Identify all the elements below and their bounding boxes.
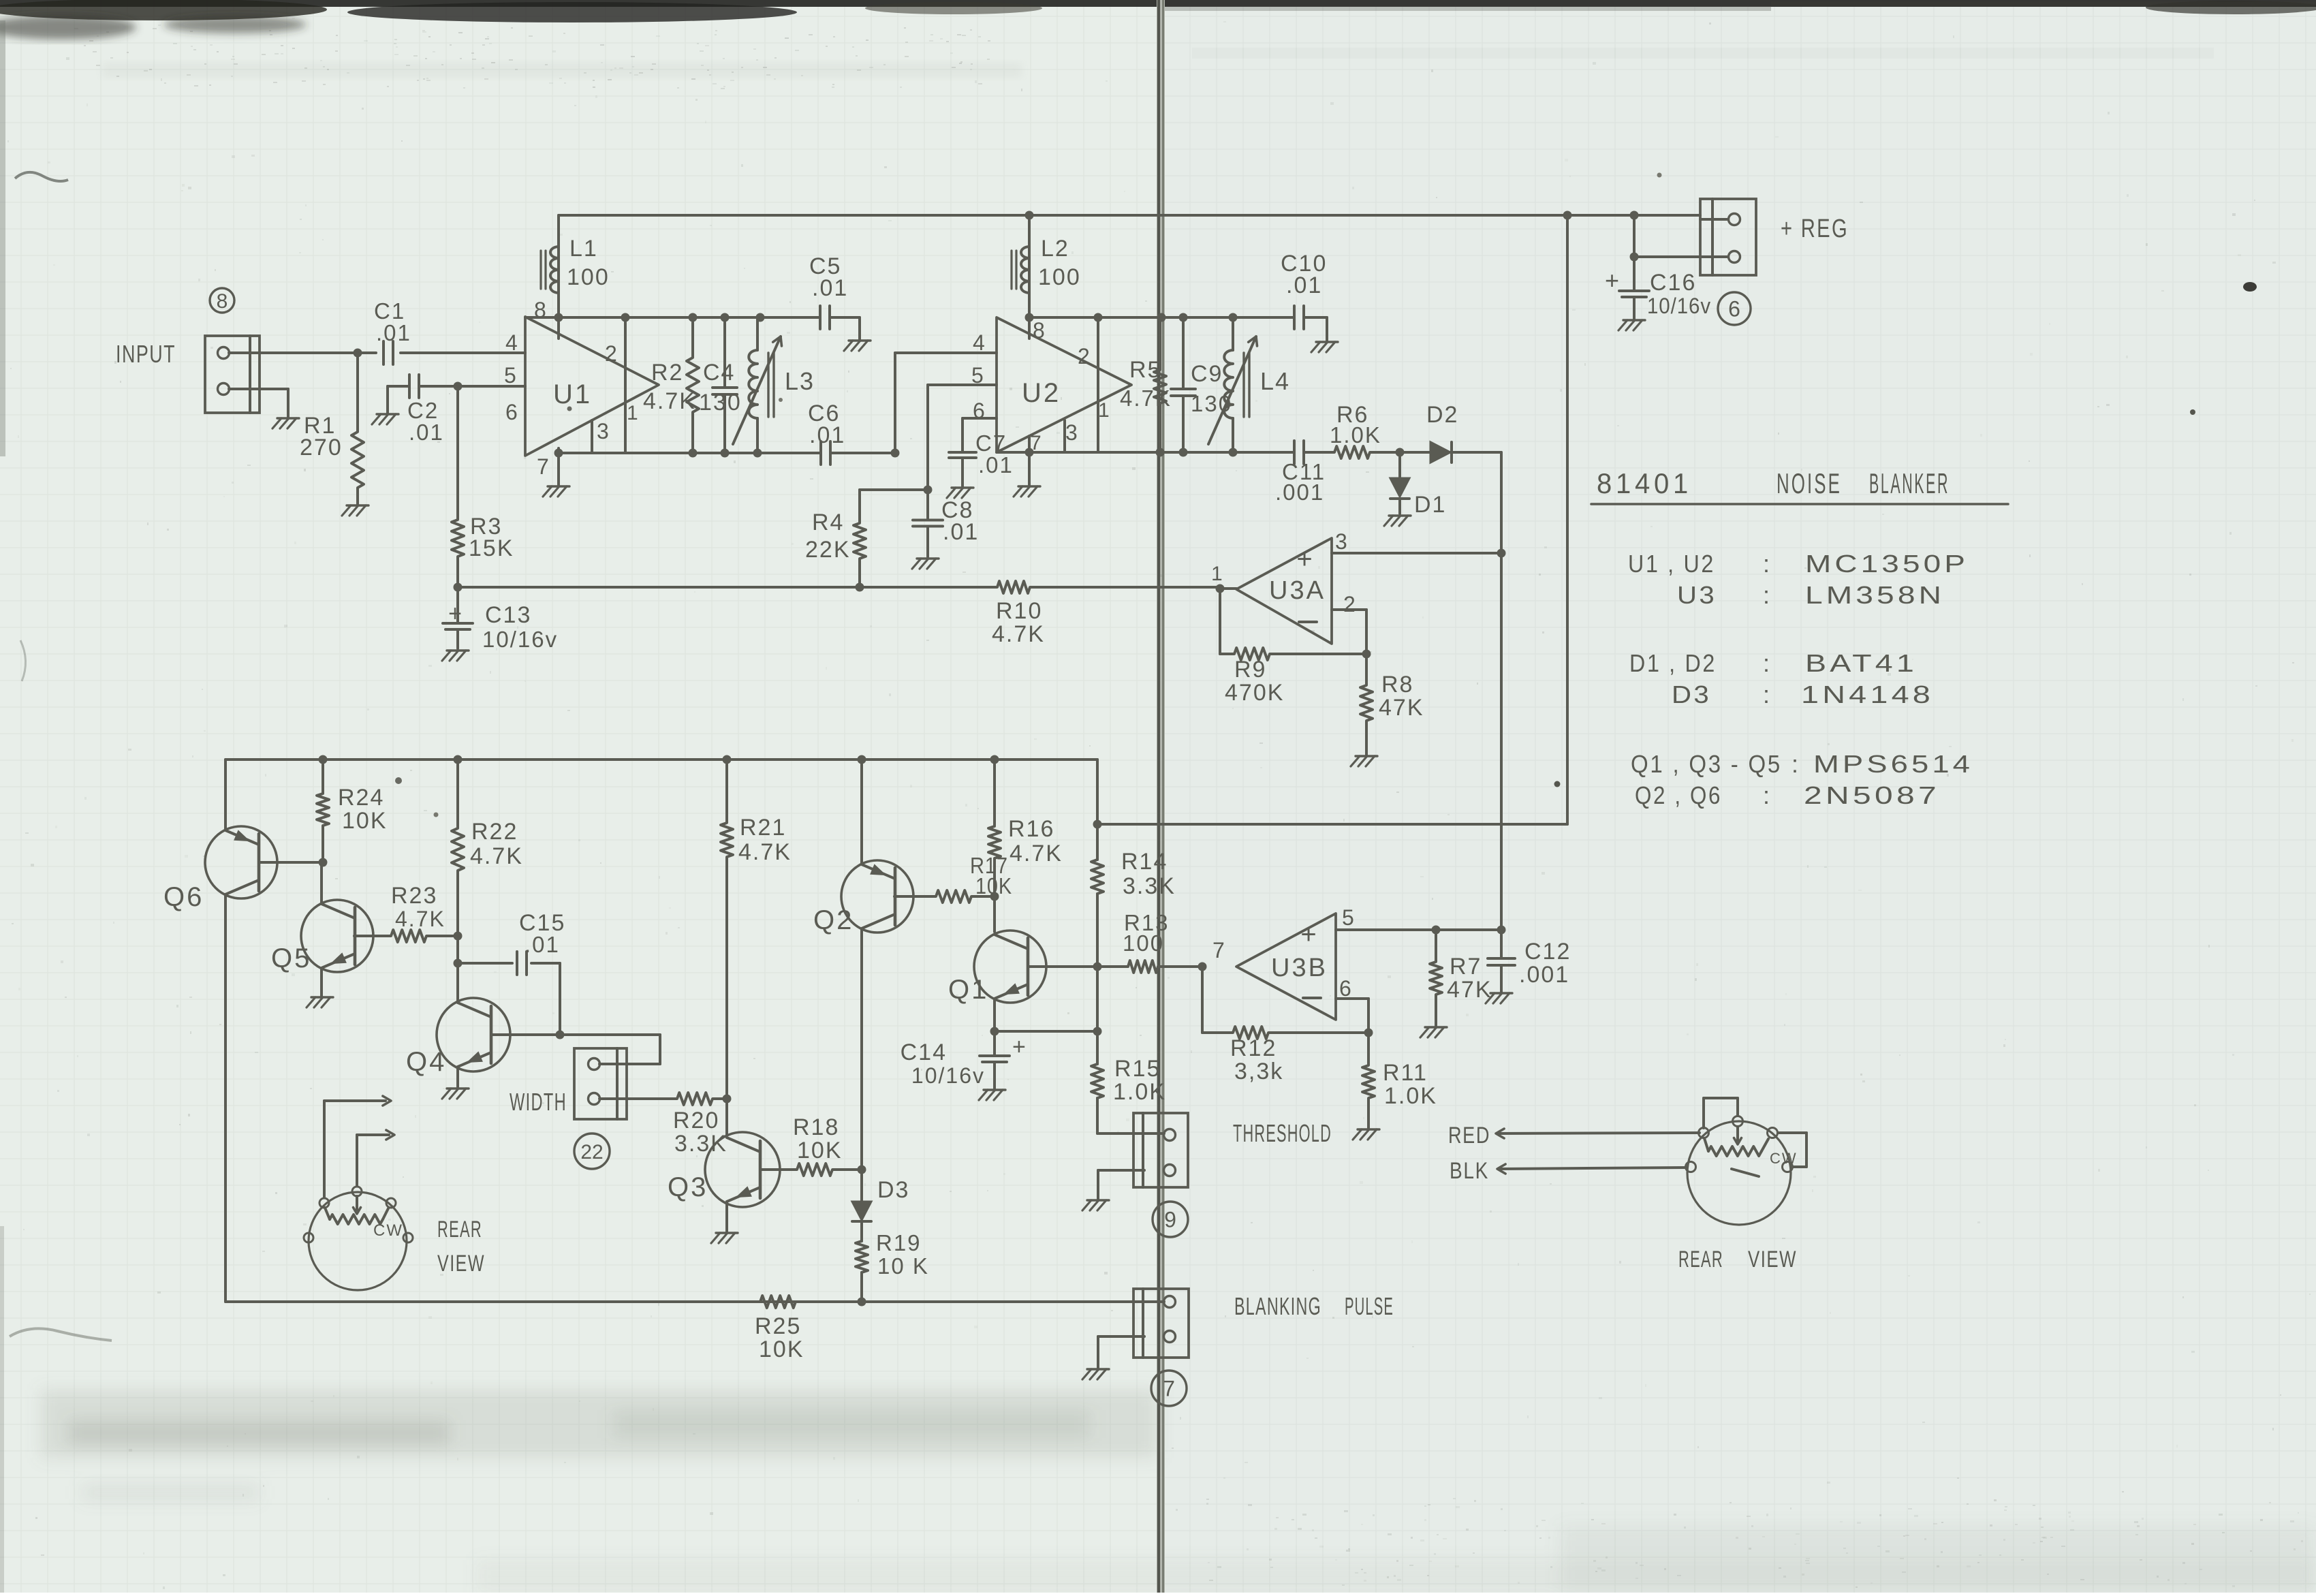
svg-text:LM358N: LM358N — [1805, 581, 1945, 609]
node pin3-D2 junction — [1497, 549, 1506, 558]
connector 9 — [1098, 1113, 1188, 1199]
svg-text:R14: R14 — [1121, 849, 1168, 875]
wire +REG drop — [1566, 215, 1569, 824]
inductor L3 (variable) — [733, 317, 815, 453]
resistor R23 — [388, 883, 458, 942]
node bus dots — [1563, 211, 1639, 220]
svg-text:C4: C4 — [703, 360, 735, 386]
resistor R11 — [1362, 1033, 1437, 1128]
svg-text:2N5087: 2N5087 — [1804, 781, 1940, 809]
scan artifacts: left edge marks — [0, 20, 5, 456]
wire bus U1 bottom — [559, 452, 820, 454]
svg-text:+: + — [1012, 1034, 1027, 1060]
wire U1 pin8 riser — [557, 215, 560, 339]
parts list Q1 Q3-Q5 — [1631, 750, 1973, 778]
svg-text:BLANKING: BLANKING — [1234, 1292, 1321, 1320]
capacitor C10 — [1281, 251, 1327, 341]
svg-text:+: + — [1300, 920, 1316, 950]
wire lower supply bus — [225, 758, 1097, 761]
capacitor C4 — [699, 317, 742, 453]
svg-text:CW: CW — [1770, 1150, 1798, 1167]
ground C5 — [844, 341, 871, 351]
wire bottom loop — [225, 1300, 1164, 1303]
REAR VIEW label right — [1678, 1247, 1797, 1272]
svg-text:4: 4 — [505, 330, 519, 355]
node pin4 drop — [891, 449, 900, 458]
resistor R4 — [805, 490, 866, 587]
THRESHOLD label — [1233, 1119, 1332, 1147]
svg-text:R18: R18 — [793, 1114, 839, 1140]
transistor Q2 (2N5087) — [813, 760, 933, 1170]
wire RED — [1496, 1129, 1700, 1138]
ground Q5 — [307, 997, 333, 1007]
ground C8 — [912, 559, 939, 569]
svg-text:100: 100 — [1123, 930, 1164, 956]
resistor R16 — [988, 760, 1063, 932]
connector J1 INPUT — [205, 336, 260, 413]
svg-text::: : — [1763, 680, 1771, 708]
svg-text:6: 6 — [505, 400, 519, 424]
resistor R10 label — [992, 598, 1045, 647]
svg-text:130: 130 — [699, 390, 742, 416]
wire input lower — [229, 389, 288, 417]
capacitor C13 — [443, 587, 558, 652]
svg-text:3.3K: 3.3K — [1123, 873, 1176, 899]
svg-text:D2: D2 — [1426, 402, 1458, 428]
node bus3 junction — [1093, 820, 1102, 829]
svg-text:4.7K: 4.7K — [643, 388, 696, 414]
wire WIDTH lower / resistor R20 — [599, 1093, 727, 1157]
svg-text:Q6: Q6 — [163, 882, 204, 912]
node Q1 base junction — [1093, 963, 1102, 971]
svg-text:1.0K: 1.0K — [1113, 1079, 1166, 1105]
wire U3B pin6 — [1336, 999, 1368, 1033]
wire detector line — [458, 581, 1220, 593]
transistor Q3 (MPS6514) — [668, 1132, 794, 1232]
ground R11 — [1353, 1129, 1379, 1140]
capacitor C6 — [808, 401, 845, 465]
wire bus U2 bottom — [997, 451, 1294, 454]
capacitor C14 — [901, 1031, 1027, 1089]
svg-text:R23: R23 — [391, 883, 437, 909]
svg-text:.01: .01 — [376, 320, 411, 345]
wire R4 top — [860, 488, 928, 491]
svg-text:NOISE: NOISE — [1777, 467, 1842, 499]
capacitor C7 — [949, 431, 1014, 486]
ground R1 — [342, 505, 369, 516]
svg-text:MC1350P: MC1350P — [1805, 550, 1969, 578]
capacitor C9 — [1171, 317, 1232, 452]
svg-text:Q3: Q3 — [668, 1172, 708, 1202]
ground C16 — [1618, 320, 1645, 330]
svg-text:D3: D3 — [877, 1177, 909, 1203]
wire C6 to U2 pin4 drop — [831, 353, 895, 453]
wire U3A output — [1220, 587, 1236, 590]
svg-text:1: 1 — [1098, 399, 1111, 422]
wire Q4 base to WIDTH — [560, 1035, 660, 1064]
svg-text:D1: D1 — [1414, 492, 1446, 518]
svg-text:2: 2 — [1078, 344, 1091, 369]
svg-text:470K: 470K — [1225, 680, 1284, 706]
svg-text:R10: R10 — [996, 598, 1042, 624]
svg-text:R9: R9 — [1234, 657, 1266, 683]
node 8 marker — [210, 288, 234, 313]
ground C7 — [947, 488, 973, 498]
svg-text:REAR: REAR — [437, 1217, 482, 1242]
svg-text:7: 7 — [537, 454, 550, 479]
svg-text:270: 270 — [300, 435, 343, 460]
svg-text:7: 7 — [1163, 1377, 1175, 1401]
node R9-R8 junction — [1362, 650, 1371, 659]
svg-text:10K: 10K — [759, 1336, 804, 1362]
diode D1 — [1390, 452, 1446, 518]
INPUT label — [116, 340, 176, 368]
transistor Q4 (MPS6514) — [406, 998, 560, 1087]
svg-text:C12: C12 — [1524, 939, 1571, 965]
transistor Q1 (MPS6514) — [948, 930, 1046, 1005]
svg-text:R11: R11 — [1383, 1060, 1428, 1086]
resistor R8 — [1360, 654, 1424, 755]
node dots U2 bottom — [1025, 448, 1238, 457]
node dots U2 top — [1025, 313, 1238, 322]
wire Q2 collector chain / diode D3 / resistor R19 — [852, 1170, 929, 1302]
svg-text:R12: R12 — [1230, 1035, 1277, 1061]
svg-text:R4: R4 — [812, 510, 844, 535]
svg-text:6: 6 — [1728, 297, 1740, 322]
node R3-C13 junction — [454, 583, 463, 592]
svg-text:3: 3 — [597, 419, 610, 443]
resistor R1 — [300, 353, 364, 504]
svg-text:R7: R7 — [1450, 954, 1482, 980]
resistor R18 — [793, 1114, 862, 1176]
svg-text:.01: .01 — [1286, 272, 1322, 298]
wire Q1 base / resistor R13 — [1028, 910, 1202, 973]
svg-text:VIEW: VIEW — [1748, 1247, 1797, 1272]
svg-text:R16: R16 — [1008, 816, 1054, 842]
svg-text:VIEW: VIEW — [437, 1251, 485, 1277]
node 6 marker — [1718, 292, 1751, 325]
op-amp U3A (LM358N) — [1211, 529, 1357, 644]
svg-text:L2: L2 — [1041, 236, 1069, 262]
svg-text:C13: C13 — [485, 602, 531, 628]
node input-R1 junction — [354, 349, 362, 358]
svg-text:4.7K: 4.7K — [992, 621, 1045, 647]
svg-text:22K: 22K — [805, 537, 851, 563]
svg-text:10K: 10K — [342, 808, 388, 834]
inductor L1 — [541, 236, 610, 293]
wire U2 pin5 — [928, 385, 997, 490]
node dots U1 bottom — [554, 449, 762, 458]
capacitor C5 — [809, 253, 860, 339]
wire U3A pin2 — [1332, 610, 1366, 654]
REAR VIEW label left — [437, 1217, 485, 1277]
svg-text:8: 8 — [1033, 318, 1046, 343]
ground U2 pin7 — [1014, 486, 1040, 497]
title 81401 NOISE BLANKER — [1591, 467, 2008, 504]
node Q4 base junction — [556, 1031, 565, 1039]
ground R7 — [1420, 1027, 1447, 1037]
svg-text::: : — [1763, 781, 1771, 809]
svg-text:Q2: Q2 — [813, 905, 854, 935]
svg-text:10 K: 10 K — [877, 1253, 929, 1279]
resistor R14 label — [1121, 849, 1176, 899]
wire U2 pin4 — [895, 351, 997, 354]
resistor R3 — [452, 386, 514, 587]
svg-text:Q1 , Q3 - Q5: Q1 , Q3 - Q5 — [1631, 750, 1782, 778]
svg-text:Q4: Q4 — [406, 1047, 446, 1077]
potentiometer THRESHOLD rear view — [1686, 1098, 1807, 1225]
svg-text:U1 , U2: U1 , U2 — [1628, 550, 1715, 578]
wire top supply bus — [559, 214, 1700, 217]
wire node line U2 top — [1029, 316, 1294, 319]
svg-text:U3: U3 — [1677, 581, 1717, 609]
ground connector 7 — [1082, 1369, 1109, 1379]
svg-text:L1: L1 — [569, 236, 598, 262]
RED label — [1448, 1123, 1490, 1148]
svg-text:1.0K: 1.0K — [1384, 1083, 1437, 1109]
svg-text:100: 100 — [1038, 264, 1081, 290]
svg-text:MPS6514: MPS6514 — [1813, 750, 1973, 778]
capacitor C8 — [913, 490, 979, 557]
resistor R25 — [755, 1296, 804, 1362]
svg-text:+: + — [1605, 266, 1621, 294]
svg-text:+: + — [448, 601, 462, 627]
resistor R17 — [933, 853, 1012, 903]
parts list U3 — [1677, 581, 1945, 609]
ground C14 — [979, 1090, 1005, 1100]
wire R14 chain drop — [1091, 760, 1164, 1133]
svg-text:WIDTH: WIDTH — [510, 1088, 567, 1116]
node R20-R21 junction — [723, 1095, 732, 1104]
op-amp U1 (MC1350P) — [504, 298, 659, 479]
svg-text:.01: .01 — [525, 932, 560, 957]
resistor R22 — [452, 760, 523, 936]
wire U1 pin7 — [557, 448, 560, 485]
capacitor C2 — [407, 375, 444, 445]
svg-text:4: 4 — [973, 330, 986, 355]
wire C2 to pin5 — [420, 385, 525, 388]
node R4 bottom — [856, 583, 864, 592]
ground C2 — [372, 414, 398, 424]
node R7 junction — [1432, 926, 1441, 935]
svg-text:5: 5 — [1342, 905, 1356, 930]
svg-text:3: 3 — [1065, 420, 1079, 445]
parts list U1 U2 — [1628, 550, 1969, 578]
svg-text:4.7K: 4.7K — [1010, 841, 1063, 866]
node 22 marker — [574, 1133, 610, 1169]
node Q1 emitter junction — [1093, 1027, 1102, 1036]
node dots U1 top — [554, 313, 765, 322]
svg-text:Q2 , Q6: Q2 , Q6 — [1635, 781, 1722, 809]
resistor R5 — [1120, 317, 1172, 452]
node D1 junction — [1396, 448, 1405, 457]
capacitor C12 — [1488, 930, 1571, 992]
capacitor C16 — [1605, 215, 1711, 319]
scan artifacts: bottom smudge — [41, 1390, 2316, 1593]
ground R8 — [1351, 756, 1377, 766]
svg-text::: : — [1763, 581, 1771, 609]
svg-text:8: 8 — [217, 290, 228, 313]
svg-text:4.7K: 4.7K — [1120, 386, 1172, 411]
svg-text:U2: U2 — [1022, 378, 1061, 408]
potentiometer WIDTH rear view — [304, 1187, 413, 1290]
node pin5 junction — [454, 382, 463, 391]
op-amp U2 (MC1350P) — [971, 317, 1131, 454]
node R4-C8 junction — [924, 486, 933, 495]
wire U2 pin6 — [963, 418, 997, 451]
svg-text:D1 , D2: D1 , D2 — [1629, 649, 1717, 677]
connector +REG — [1700, 199, 1756, 275]
svg-text:U3A: U3A — [1269, 576, 1326, 605]
svg-text:2: 2 — [1343, 592, 1357, 616]
svg-text:+ REG: + REG — [1781, 215, 1849, 243]
ground connector 9 — [1082, 1200, 1109, 1210]
svg-text:U3B: U3B — [1271, 954, 1328, 982]
wire pot arrow 1 — [324, 1096, 391, 1198]
svg-text:1N4148: 1N4148 — [1801, 680, 1934, 708]
ground Q3 — [711, 1233, 738, 1243]
transistor Q5 (MPS6514) — [271, 862, 388, 996]
svg-text:R20: R20 — [673, 1108, 719, 1133]
svg-text::: : — [1763, 550, 1771, 578]
wire mid supply bus — [1097, 823, 1567, 826]
svg-text:R2: R2 — [651, 360, 683, 386]
wire R22 to Q4 — [456, 936, 459, 1003]
BLK label — [1450, 1158, 1489, 1184]
ground input lower — [272, 418, 299, 428]
svg-text:R15: R15 — [1114, 1056, 1161, 1082]
svg-text:C16: C16 — [1650, 270, 1696, 296]
wire U2 pin7 — [1028, 436, 1031, 485]
scan artifacts: top edge — [0, 0, 2316, 7]
svg-text:3: 3 — [1335, 529, 1349, 554]
connector WIDTH — [574, 1048, 627, 1119]
svg-text:.01: .01 — [943, 519, 979, 545]
svg-text:.001: .001 — [1275, 480, 1324, 505]
node 7 marker — [1151, 1371, 1187, 1406]
resistor R9 — [1220, 589, 1366, 706]
wire U3A pin3 out — [1332, 552, 1501, 554]
node C16 tap — [1630, 253, 1639, 262]
svg-text:REAR: REAR — [1678, 1247, 1723, 1272]
resistor R2 — [643, 317, 699, 453]
svg-text:R24: R24 — [338, 785, 384, 811]
+REG label — [1781, 215, 1849, 243]
svg-text:81401: 81401 — [1597, 467, 1692, 499]
svg-text:1.0K: 1.0K — [1330, 422, 1381, 448]
parts list D1 D2 — [1629, 649, 1918, 677]
svg-text:C9: C9 — [1191, 361, 1223, 387]
inductor L2 — [1012, 236, 1081, 293]
svg-text:2: 2 — [605, 341, 619, 366]
wire input upper to C1 — [229, 351, 376, 354]
svg-text:BLK: BLK — [1450, 1158, 1489, 1184]
svg-text:3,3k: 3,3k — [1234, 1059, 1283, 1084]
svg-text:.01: .01 — [812, 275, 848, 301]
wire U1 pin2 drop — [624, 317, 627, 453]
wire pot arrow 2 — [357, 1130, 394, 1186]
capacitor C1 — [374, 298, 525, 364]
node R18-D3 junction — [858, 1165, 866, 1174]
svg-text:6: 6 — [1339, 976, 1353, 1001]
resistor R7 — [1430, 930, 1492, 1026]
ground C10 — [1311, 342, 1338, 352]
node lower bus dots — [319, 755, 999, 764]
connector 7 — [1098, 1289, 1189, 1368]
svg-text:L4: L4 — [1260, 367, 1290, 395]
svg-text:R19: R19 — [876, 1230, 922, 1255]
node R17-R16 junction — [990, 892, 999, 901]
resistor R6 — [1304, 402, 1501, 458]
svg-text:THRESHOLD: THRESHOLD — [1233, 1119, 1332, 1147]
ground C13 — [442, 651, 469, 661]
wire BLK — [1497, 1164, 1686, 1174]
svg-text::: : — [1791, 750, 1800, 778]
svg-text:C14: C14 — [901, 1039, 947, 1065]
svg-text:Q5: Q5 — [271, 943, 311, 973]
svg-text:10K: 10K — [797, 1138, 843, 1163]
inductor L4 (variable) — [1208, 317, 1290, 452]
capacitor C11 — [1275, 441, 1326, 505]
svg-text:10/16v: 10/16v — [482, 627, 558, 652]
node R12-R11 junction — [1364, 1029, 1373, 1037]
capacitor C15 — [458, 910, 565, 1035]
resistor R12 — [1202, 967, 1368, 1084]
svg-text:R5: R5 — [1129, 357, 1161, 383]
wire to +REG lower pin — [1634, 255, 1700, 258]
svg-text:PULSE: PULSE — [1345, 1292, 1394, 1320]
svg-text:CW: CW — [373, 1221, 403, 1240]
ground C12 — [1486, 993, 1512, 1003]
svg-text:R8: R8 — [1381, 672, 1413, 698]
svg-text:47K: 47K — [1447, 977, 1492, 1003]
wire U2 pin3 drop — [1063, 420, 1066, 452]
node U3B output — [1198, 963, 1207, 971]
svg-text:U1: U1 — [553, 379, 592, 409]
wire node line U1 top — [525, 316, 819, 319]
svg-text:BLANKER: BLANKER — [1869, 467, 1950, 499]
svg-text:4.7K: 4.7K — [395, 907, 445, 931]
stray ink specks — [2243, 282, 2257, 292]
svg-text:10/16v: 10/16v — [1647, 294, 1711, 318]
svg-text:22: 22 — [580, 1141, 603, 1163]
svg-text:.01: .01 — [978, 452, 1014, 478]
node Q6 base junction — [319, 858, 328, 867]
wire C2 stub — [388, 386, 409, 413]
svg-text:.01: .01 — [809, 422, 845, 448]
transistor Q6 (2N5087) — [163, 760, 323, 1302]
node C15 junction — [454, 959, 463, 968]
svg-text:10/16v: 10/16v — [911, 1063, 985, 1088]
resistor R15 label — [1113, 1056, 1166, 1105]
BLANKING PULSE label — [1234, 1292, 1394, 1320]
scan speckle noise — [910, 438, 912, 439]
svg-text::: : — [1763, 649, 1771, 677]
svg-text:D3: D3 — [1672, 680, 1711, 708]
node C12 junction — [1497, 926, 1506, 935]
svg-text:7: 7 — [1212, 938, 1226, 963]
op-amp U3B (LM358N) — [1212, 905, 1356, 1020]
node 9 marker — [1153, 1202, 1188, 1237]
svg-text:.001: .001 — [1519, 962, 1569, 988]
svg-text:INPUT: INPUT — [116, 340, 176, 368]
svg-text:R25: R25 — [755, 1313, 801, 1339]
svg-text:5: 5 — [504, 363, 518, 388]
parts list D3 — [1672, 680, 1934, 708]
svg-text:4.7K: 4.7K — [738, 839, 792, 865]
svg-text:15K: 15K — [469, 535, 514, 561]
resistor R24 — [317, 760, 388, 862]
